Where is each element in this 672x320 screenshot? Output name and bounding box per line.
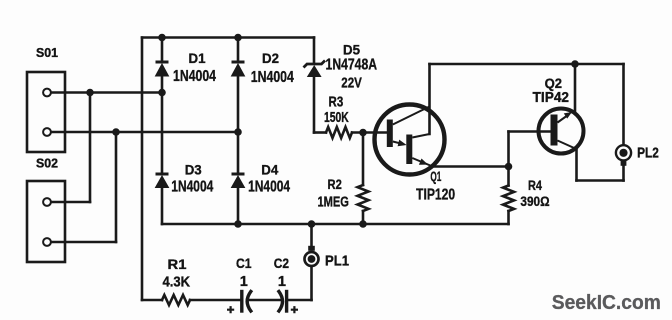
wire R4 lower lead — [507, 211, 510, 224]
wire left vertical — [141, 38, 144, 301]
capacitor C2 — [279, 292, 287, 312]
transistor Q2 — [539, 109, 584, 154]
wire bottom rail to R1 — [142, 299, 162, 302]
wire S01 top row — [51, 91, 162, 94]
diode D2 — [232, 62, 245, 76]
svg-text:D5: D5 — [343, 42, 360, 58]
svg-text:D1: D1 — [189, 50, 206, 66]
svg-text:1: 1 — [240, 274, 248, 290]
wire D2 lower lead — [237, 76, 240, 132]
svg-text:150K: 150K — [324, 110, 349, 126]
wire S01 bottom row — [51, 131, 238, 134]
svg-text:D2: D2 — [262, 50, 279, 66]
wire C2 to PL1 column — [287, 299, 312, 302]
svg-text:S02: S02 — [36, 157, 58, 171]
wire D1-D3 column — [161, 93, 164, 175]
wire Q2 emitter riser — [574, 64, 577, 113]
wire R2 lower lead — [362, 211, 365, 224]
node D1 top junction — [158, 34, 166, 42]
resistor R3 — [326, 127, 352, 138]
svg-text:22V: 22V — [341, 75, 362, 92]
resistor R1 — [162, 295, 190, 305]
wire PL1 bottom lead — [310, 266, 313, 300]
wire Q2 base riser — [507, 132, 510, 167]
wire collector bottom run — [577, 179, 624, 182]
diode D1 — [156, 62, 169, 76]
node S01 bottom junction — [112, 128, 120, 136]
svg-text:PL1: PL1 — [325, 254, 349, 270]
node D1 anode junction — [158, 89, 166, 97]
jack PL1 — [305, 246, 319, 266]
wire D4 lower lead — [237, 188, 240, 225]
svg-text:R3: R3 — [329, 95, 344, 111]
node R2 bottom junction — [359, 220, 367, 228]
svg-text:D3: D3 — [185, 162, 202, 178]
svg-text:PL2: PL2 — [637, 145, 659, 161]
wire PL2 bottom lead — [622, 165, 625, 181]
svg-text:1N4004: 1N4004 — [173, 68, 216, 85]
node D4 bottom junction — [234, 220, 242, 228]
svg-text:Q1: Q1 — [430, 169, 441, 184]
wire D1 upper lead — [161, 38, 164, 63]
wire S02 top riser — [89, 93, 92, 203]
wire R2 upper lead — [362, 133, 365, 186]
svg-text:1MEG: 1MEG — [318, 195, 349, 211]
wire D5 upper lead — [313, 38, 316, 64]
resistor R4 — [503, 186, 514, 211]
svg-text:R1: R1 — [168, 257, 187, 272]
connector S02 — [27, 181, 65, 262]
node Q2 emitter rail junction — [571, 60, 579, 68]
wire D5 to R3 — [314, 131, 326, 134]
wire S02 bottom riser — [115, 132, 118, 242]
wire PL1 top lead — [310, 224, 313, 246]
wire mid bottom rail — [162, 223, 509, 226]
svg-text:1: 1 — [278, 274, 286, 290]
wire S02 top lead — [51, 201, 90, 204]
wire PL2 top lead — [622, 64, 625, 145]
wire top-right rail — [430, 63, 624, 66]
wire Q2 base lead — [509, 130, 552, 133]
zener diode D5 — [304, 61, 326, 77]
node PL1 top junction — [308, 220, 316, 228]
wire Q1 emitter row — [432, 165, 509, 168]
resistor R2 — [358, 185, 369, 211]
svg-text:SeekIC.com: SeekIC.com — [552, 291, 661, 314]
diode D3 — [156, 174, 169, 188]
svg-text:Q2: Q2 — [545, 76, 562, 91]
wire R3 to Q1 base — [352, 131, 388, 134]
svg-text:C2: C2 — [274, 255, 289, 271]
svg-text:1N4748A: 1N4748A — [326, 56, 378, 73]
node R2 top junction — [359, 129, 367, 137]
transistor Q1 — [375, 105, 445, 175]
svg-text:S01: S01 — [36, 46, 58, 60]
svg-text:R4: R4 — [528, 178, 542, 193]
node D2 top junction — [234, 34, 242, 42]
svg-text:TIP42: TIP42 — [533, 90, 570, 106]
svg-text:C1: C1 — [236, 255, 252, 271]
wire D2 upper lead — [237, 38, 240, 63]
wire Q1 collector riser — [428, 64, 431, 134]
wire S02 bottom lead — [51, 241, 116, 244]
jack PL2 — [616, 145, 631, 166]
svg-text:TIP120: TIP120 — [416, 187, 455, 204]
wire R1 to C1 — [190, 299, 242, 302]
wire D1 lower lead — [161, 76, 164, 93]
svg-text:4.3K: 4.3K — [163, 274, 191, 290]
wire D3 lower lead — [161, 188, 164, 225]
label C1 plus — [227, 306, 234, 313]
svg-text:D4: D4 — [261, 162, 278, 178]
node D2 anode junction — [234, 128, 242, 136]
wire C1 to C2 — [247, 299, 282, 302]
wire top-left rail — [142, 36, 314, 39]
svg-text:1N4004: 1N4004 — [171, 179, 213, 196]
svg-text:1N4004: 1N4004 — [251, 69, 294, 86]
connector S01 — [27, 72, 65, 152]
wire D5 lower lead — [313, 77, 316, 133]
node emitter R4 junction — [505, 163, 513, 171]
wire R4 upper lead — [507, 167, 510, 186]
svg-text:390Ω: 390Ω — [520, 193, 549, 209]
svg-text:1N4004: 1N4004 — [248, 179, 290, 196]
label C2 plus — [291, 306, 298, 313]
wire Q2 collector drop — [575, 149, 578, 181]
node S01 top junction — [86, 89, 94, 97]
diode D4 — [232, 174, 245, 188]
capacitor C1 — [242, 292, 251, 312]
svg-text:R2: R2 — [328, 176, 342, 192]
wire D2-D4 column — [237, 132, 240, 174]
